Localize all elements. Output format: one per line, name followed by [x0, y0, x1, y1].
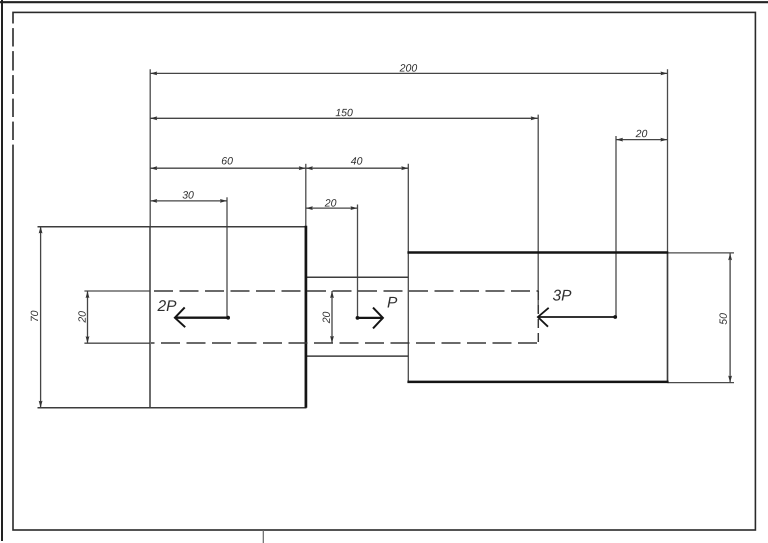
svg-text:50: 50: [718, 313, 730, 325]
svg-text:70: 70: [29, 310, 41, 322]
svg-text:P: P: [387, 295, 398, 312]
svg-text:2P: 2P: [156, 298, 177, 315]
svg-text:150: 150: [335, 107, 353, 119]
svg-text:200: 200: [399, 62, 418, 74]
svg-text:20: 20: [77, 311, 89, 324]
svg-text:20: 20: [324, 197, 337, 209]
svg-text:60: 60: [221, 155, 233, 167]
svg-text:40: 40: [351, 155, 363, 167]
svg-text:3P: 3P: [552, 288, 572, 305]
svg-text:30: 30: [182, 189, 194, 201]
svg-text:20: 20: [321, 311, 333, 324]
svg-text:20: 20: [635, 128, 648, 140]
